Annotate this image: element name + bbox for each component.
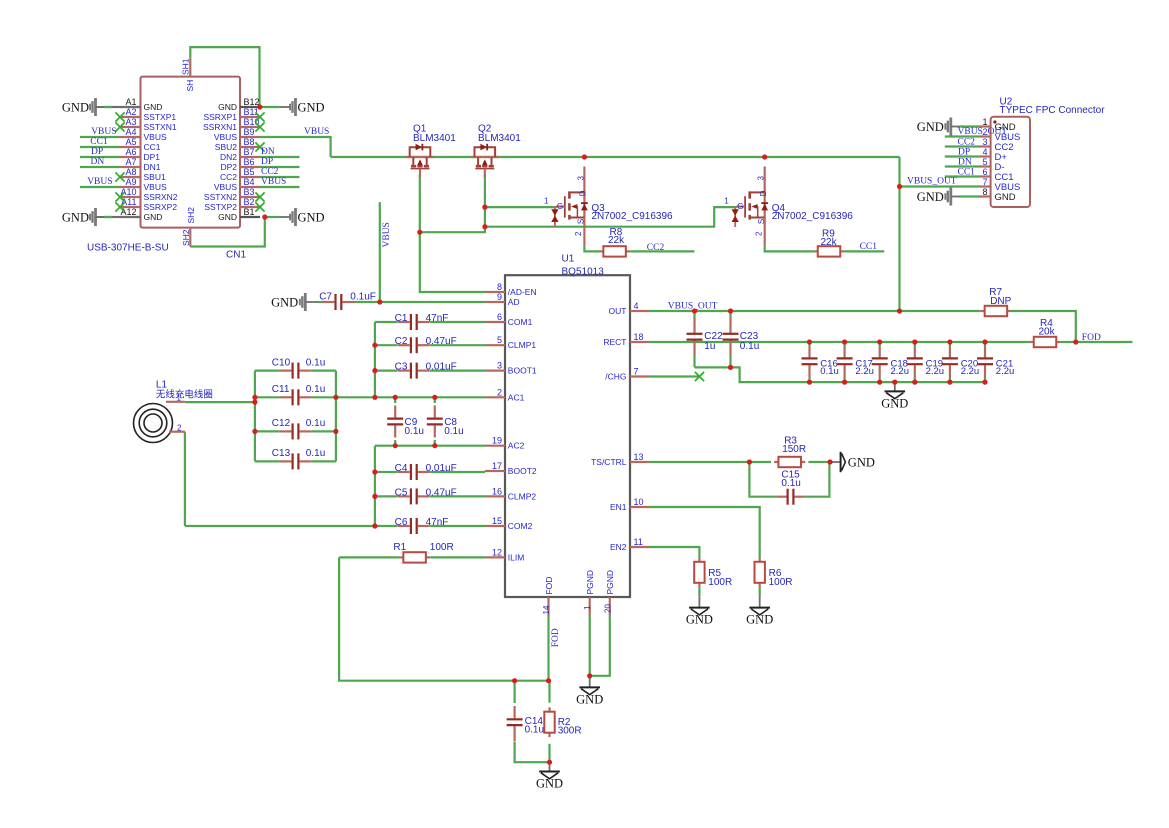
pin B1 [240,216,260,218]
svg-text:B8: B8 [244,137,255,147]
svg-text:ILIM: ILIM [508,552,525,562]
pin 12 ILIM [485,556,505,558]
svg-text:C5: C5 [395,487,408,498]
svg-text:GND: GND [917,190,944,204]
wire OUT row [650,310,980,312]
wire coil pin2 [184,432,186,526]
wire [80,156,120,158]
junction [432,443,437,448]
svg-text:C4: C4 [395,463,408,474]
wire to U2 pin7 [900,185,981,187]
wire VBUS vertical [379,202,381,302]
wire C9 stubs [394,397,396,403]
pin 4 [980,155,991,157]
junction [827,459,832,464]
capacitor C3 [398,370,410,372]
svg-text:SBU1: SBU1 [144,172,166,182]
svg-text:14: 14 [542,605,551,614]
connector U2 body [991,117,1030,207]
no-connect X [115,192,124,201]
svg-text:C12: C12 [272,418,291,429]
junction [728,365,733,370]
wire [260,156,300,158]
resistor R9 [813,250,817,252]
svg-text:B5: B5 [244,167,255,177]
svg-text:12: 12 [492,547,502,557]
svg-text:EN2: EN2 [610,542,627,552]
wire cap stub [949,342,951,347]
junction [587,673,592,678]
pin 2 [980,135,991,137]
pin B4 [240,186,260,188]
wire R8 to CC2 [630,250,694,252]
pin A9 [120,186,141,188]
junction [692,308,697,313]
pin 5 [980,165,991,167]
svg-text:AC1: AC1 [508,392,525,402]
svg-text:VBUS: VBUS [144,182,167,192]
svg-text:300R: 300R [558,726,582,737]
svg-text:VBUS: VBUS [304,127,329,137]
svg-text:GND: GND [848,456,875,470]
svg-text:无线充电线圈: 无线充电线圈 [156,389,213,401]
wire coil pin1 [185,401,255,403]
wire [430,525,485,527]
no-connect X [255,192,264,201]
svg-text:VBUS: VBUS [214,132,237,142]
svg-text:2.2u: 2.2u [855,366,874,377]
svg-text:COM1: COM1 [508,317,533,327]
svg-text:BOOT1: BOOT1 [508,366,537,376]
svg-text:GND: GND [218,212,237,222]
junction [252,400,257,405]
pin 6 COM1 [485,321,505,323]
svg-text:B9: B9 [244,127,255,137]
ground GND at C7 [299,293,307,311]
svg-text:GND: GND [995,192,1016,203]
wire R9 to CC1 [845,250,885,252]
junction [262,214,267,219]
pin A4 [120,136,141,138]
svg-text:11: 11 [634,537,643,547]
svg-text:15: 15 [492,516,502,526]
svg-text:B6: B6 [244,157,255,167]
capacitor C1 [398,321,410,323]
svg-text:DP: DP [958,147,970,157]
svg-text:100R: 100R [708,577,732,588]
svg-text:RECT: RECT [603,337,626,347]
svg-text:A6: A6 [125,147,136,157]
wire [430,370,485,372]
pin SH2 [189,228,191,247]
wire Q3 source to R8 [584,246,599,252]
svg-text:3: 3 [576,175,585,180]
wire C22/C23 bottom [695,367,986,382]
svg-text:0.47uF: 0.47uF [426,487,457,498]
pin A8 [120,176,141,178]
svg-text:AC2: AC2 [508,441,525,451]
junction [432,395,437,400]
junction [546,678,551,683]
svg-text:OUT: OUT [609,306,627,316]
svg-text:22k: 22k [821,237,838,248]
resistor R6 [759,557,761,561]
svg-text:22k: 22k [608,235,625,246]
svg-text:SH: SH [185,80,195,92]
capacitor C22 [693,317,695,333]
pin 6 [980,175,991,177]
wire cap stub [843,342,845,347]
wire C4-C6 bus [374,446,376,526]
wire FOD pin down [547,616,549,681]
svg-text:47nF: 47nF [426,517,449,528]
svg-text:13: 13 [634,452,644,462]
svg-text:FOD: FOD [1082,333,1101,343]
svg-text:TYPEC FPC Connector: TYPEC FPC Connector [1000,105,1106,116]
junction [762,154,767,159]
svg-text:2: 2 [574,231,583,236]
capacitor C20 [949,347,951,357]
junction [1073,339,1078,344]
svg-text:2.2u: 2.2u [926,366,945,377]
junction [807,339,812,344]
svg-text:47nF: 47nF [426,313,449,324]
ground GND below R6 [759,598,761,607]
svg-text:USB-307HE-B-SU: USB-307HE-B-SU [87,243,169,254]
wire C14 bottom [515,742,550,763]
svg-text:B4: B4 [244,177,255,187]
wire [260,166,300,168]
no-connect X [115,172,124,181]
svg-text:CC2: CC2 [261,167,279,177]
pin 3 BOOT1 [485,370,505,372]
svg-text:100R: 100R [769,577,793,588]
wire C22 stubs [693,311,695,317]
pin SH1 [189,59,191,77]
svg-text:A9: A9 [125,177,136,187]
pin 1 [980,125,991,127]
junction [842,380,847,385]
svg-text:A4: A4 [125,127,136,137]
capacitor C4 [398,471,410,473]
junction [482,224,487,229]
svg-text:BLM3401: BLM3401 [413,133,456,144]
ground GND at U2 pin1 [944,118,952,136]
capacitor C13 [280,460,292,462]
svg-text:GND: GND [298,210,325,224]
svg-text:DP: DP [91,147,103,157]
svg-text:0.1u: 0.1u [740,341,759,352]
wire EN1 to R6 [650,507,760,558]
capacitor C23 [729,317,731,333]
wire [430,344,485,346]
no-connect X [115,202,124,211]
wire R1 row [339,556,399,558]
pin 7 /CHG [630,375,650,377]
svg-text:SSTXN1: SSTXN1 [144,122,177,132]
wire [104,216,119,218]
wire SH2 net [190,217,264,247]
pin B7 [240,156,260,158]
wire R6 gnd [759,587,761,596]
wire /CHG stub [650,375,700,377]
junction [512,678,517,683]
junction [372,343,377,348]
svg-text:SSTXP1: SSTXP1 [144,112,177,122]
wire [255,430,280,432]
pin B6 [240,166,260,168]
ground GND at A1 [89,98,97,116]
svg-text:SBU2: SBU2 [215,142,237,152]
wire EN2 to R5 [650,547,699,558]
svg-text:D: D [759,190,768,196]
svg-text:DN2: DN2 [220,152,237,162]
svg-text:GND: GND [746,613,773,627]
wire C15 loop right [804,462,829,497]
ground GND at U2 pin8 [944,188,952,206]
svg-text:SH1: SH1 [181,58,191,75]
transistor Q1 [406,144,434,177]
svg-text:PGND: PGND [585,570,595,595]
pin B10 [240,126,260,128]
wire [255,370,280,372]
svg-text:DP1: DP1 [144,152,161,162]
wire [104,106,119,108]
svg-text:G: G [737,202,743,211]
svg-text:A11: A11 [121,197,136,207]
svg-text:5: 5 [497,335,502,345]
resistor R8 [599,250,603,252]
svg-text:0.1u: 0.1u [306,418,325,429]
wire U2 pin1 gnd [959,125,981,127]
junction [912,339,917,344]
svg-text:3: 3 [497,361,502,371]
svg-text:A8: A8 [125,167,136,177]
svg-text:3: 3 [982,137,987,147]
pin 7 [980,185,991,187]
ground GND at A12 [89,208,97,226]
wire [80,136,120,138]
svg-text:B11: B11 [244,107,259,117]
wire [260,106,279,108]
resistor R7 [980,310,984,312]
pin labels Q3 [544,175,588,236]
ground GND below cap bank [894,382,896,391]
capacitor C11 [280,396,292,398]
svg-text:GND: GND [62,100,89,114]
svg-text:DN: DN [261,147,275,157]
pin B3 [240,196,260,198]
svg-text:CN1: CN1 [226,250,246,261]
svg-text:C6: C6 [395,517,408,528]
pin 13 TS/CTRL [630,461,650,463]
svg-text:B12: B12 [244,97,260,107]
ground GND below R2 [549,762,551,771]
wire C15 loop left [749,462,776,497]
pin 8 [980,195,991,197]
junction [897,184,902,189]
svg-text:S: S [757,219,766,224]
svg-text:10: 10 [634,497,644,507]
svg-text:0.01uF: 0.01uF [426,362,457,373]
svg-text:B7: B7 [244,147,255,157]
svg-text:AD: AD [508,297,520,307]
junction [582,154,587,159]
svg-text:S: S [577,219,586,224]
svg-text:VBUS: VBUS [91,127,116,137]
wire [260,176,300,178]
svg-text:/CHG: /CHG [605,372,626,382]
svg-text:SSRXN2: SSRXN2 [144,192,178,202]
wire R1 to ILIM [430,556,485,558]
wire U2 stub [945,155,980,157]
capacitor C17 [843,347,845,357]
svg-text:3: 3 [757,175,766,180]
junction [372,494,377,499]
pin B11 [240,116,260,118]
wire [430,321,485,323]
svg-text:7: 7 [982,177,987,187]
svg-text:VBUS_OUT: VBUS_OUT [907,177,957,187]
no-connect X [115,122,124,131]
svg-text:VBUS_OUT: VBUS_OUT [958,127,1008,137]
wire RECT row [650,341,1029,343]
wire AC2 row [375,445,485,447]
pin labels Q4 [724,175,768,236]
pin 20 PGND [609,597,611,616]
wire U2 stub [945,175,980,177]
wire U2 stub [945,135,980,137]
wire C10-13 right bus [335,371,337,462]
svg-text:20: 20 [603,604,612,613]
junction [252,395,257,400]
junction [547,760,552,765]
wire R4 to FOD [1061,341,1133,343]
svg-text:C1: C1 [395,313,408,324]
svg-text:CC1: CC1 [144,142,161,152]
junction [892,380,897,385]
svg-text:150R: 150R [782,444,806,455]
wire [898,157,900,311]
svg-text:EN1: EN1 [610,502,627,512]
svg-text:CC2: CC2 [647,243,665,253]
svg-text:VBUS: VBUS [214,182,237,192]
junction [947,339,952,344]
svg-text:0.1uF: 0.1uF [350,292,376,303]
capacitor C5 [398,495,410,497]
junction [482,205,487,210]
svg-text:0.1u: 0.1u [444,426,463,437]
junction [417,230,422,235]
ground GND below PGND [589,676,591,679]
pin 16 CLMP2 [485,495,505,497]
pin A12 [120,216,141,218]
svg-text:DP: DP [261,157,273,167]
svg-text:SH2: SH2 [181,229,191,246]
wire [255,396,280,398]
no-connect X [255,122,264,131]
wire AC1 row [336,396,485,398]
pin B9 [240,136,260,138]
wire [430,495,485,497]
svg-text:8: 8 [497,282,502,292]
svg-text:SSTXN2: SSTXN2 [204,192,237,202]
wire [375,344,398,346]
svg-text:0.1u: 0.1u [820,366,839,377]
junction [372,523,377,528]
inductor L1 coil [134,402,185,443]
svg-text:SSRXP1: SSRXP1 [203,112,237,122]
wire R7 right [1012,311,1076,342]
wire U2 stub [945,145,980,147]
junction [252,429,257,434]
svg-text:2.2u: 2.2u [891,366,910,377]
svg-text:C13: C13 [272,448,291,459]
capacitor C15 [777,496,787,498]
svg-text:/AD-EN: /AD-EN [508,287,537,297]
svg-text:4: 4 [982,147,987,157]
wire R1 loop [339,557,548,680]
svg-text:A3: A3 [125,117,136,127]
pin A11 [120,206,141,208]
wire R2 top [548,681,550,703]
resistor R2 [548,707,550,711]
svg-text:6: 6 [497,312,502,322]
svg-text:DN1: DN1 [144,162,161,172]
capacitor C18 [879,347,881,357]
svg-text:VBUS: VBUS [87,177,112,187]
wire Q2 gate [420,175,485,232]
svg-text:BQ51013: BQ51013 [562,266,605,277]
capacitor C12 [280,430,292,432]
svg-text:0.1u: 0.1u [306,448,325,459]
svg-text:0.1u: 0.1u [525,724,544,735]
wire cap stub [914,342,916,347]
wire [375,471,398,473]
svg-text:C11: C11 [272,384,290,395]
svg-text:PGND: PGND [605,570,615,595]
capacitor C10 [280,370,292,372]
svg-text:C7: C7 [319,291,332,302]
svg-text:18: 18 [634,332,644,342]
svg-text:DP2: DP2 [220,162,237,172]
pin 8 /AD-EN [485,291,505,293]
svg-text:C2: C2 [395,336,408,347]
resistor R4 [1029,341,1033,343]
junction [333,395,338,400]
svg-text:CC2: CC2 [220,172,237,182]
pin A10 [120,196,141,198]
svg-text:C10: C10 [272,357,291,368]
wire C23 stubs [729,311,731,317]
svg-text:A2: A2 [125,107,136,117]
svg-text:BOOT2: BOOT2 [508,466,537,476]
svg-text:VBUS: VBUS [144,132,167,142]
pin 15 COM2 [485,525,505,527]
svg-text:DN: DN [958,157,972,167]
pin B5 [240,176,260,178]
wire C10-13 left bus [254,371,256,462]
wire C7 gnd side [318,301,323,303]
svg-text:B2: B2 [244,197,255,207]
ground GND right of R3 [830,461,840,463]
svg-text:CC1: CC1 [860,242,878,252]
junction [393,443,398,448]
svg-text:19: 19 [492,436,502,446]
pin A2 [120,116,141,118]
wire cap stub [984,342,986,347]
no-connect X [255,112,264,121]
